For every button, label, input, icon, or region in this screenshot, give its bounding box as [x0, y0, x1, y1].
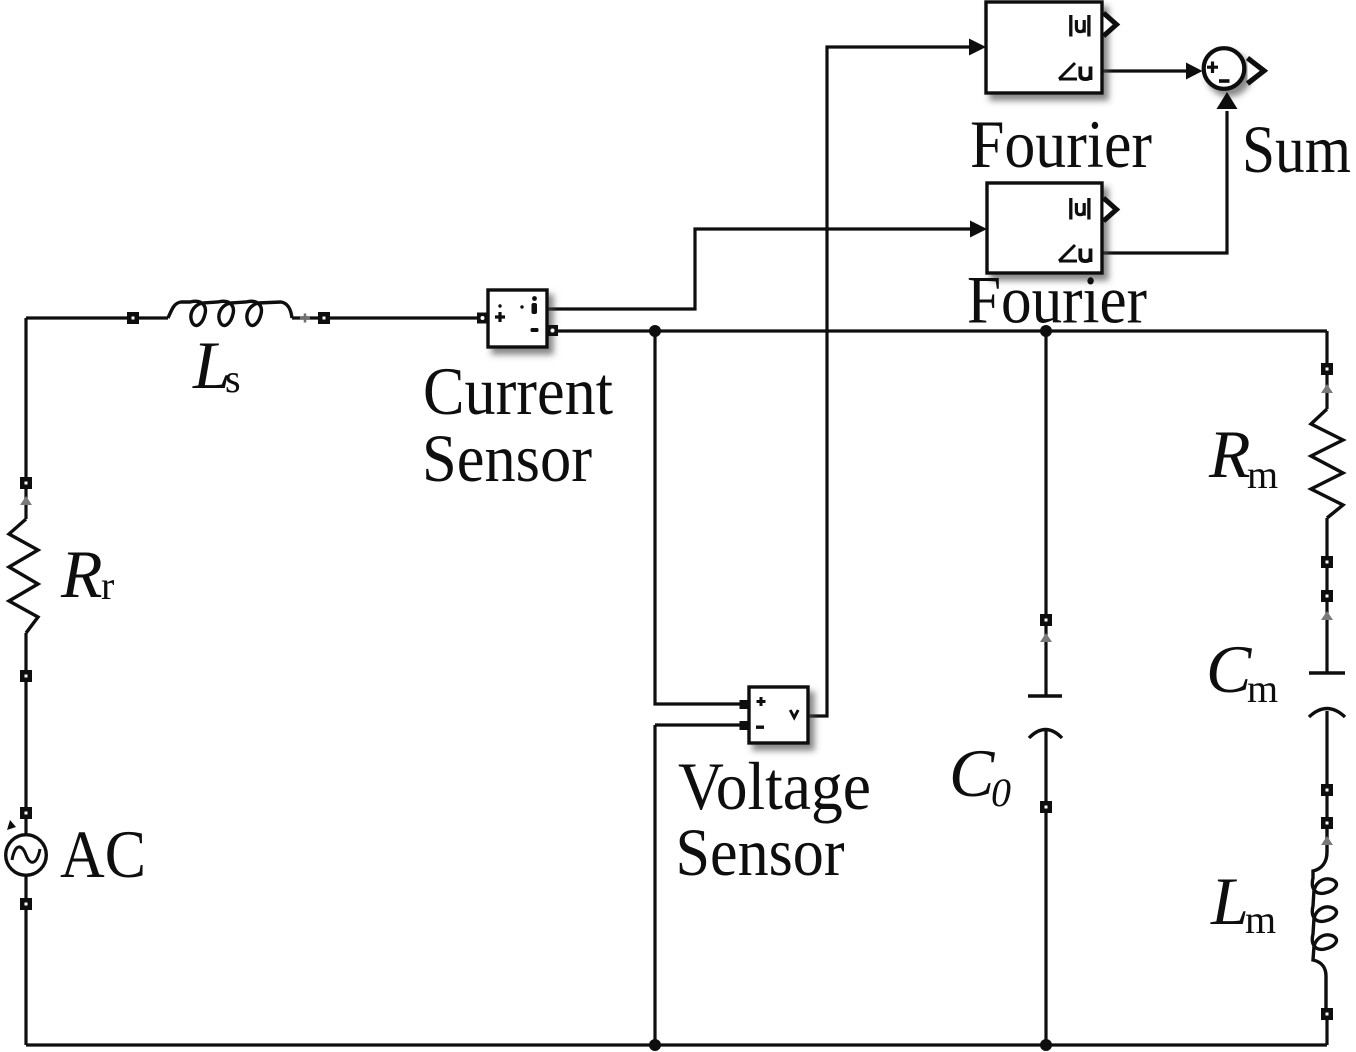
Fourier2 angle-u label [1059, 245, 1091, 262]
wire voltage sensor output [808, 47, 970, 716]
port AC top [20, 807, 32, 819]
resistor Rr [9, 519, 38, 633]
svg-text:m: m [1247, 452, 1278, 497]
inductor Lm [1312, 829, 1336, 1008]
svg-text:Sum: Sum [1242, 111, 1351, 187]
wire middle vertical to voltage sensor minus and bottom [655, 725, 740, 1045]
svg-text:Voltage: Voltage [678, 748, 871, 824]
current sensor i glyph [532, 296, 538, 314]
current sensor U1 [488, 290, 547, 347]
svg-text:R: R [1208, 416, 1251, 492]
Fourier2 |u| label [1071, 198, 1089, 220]
sum bottom input arrow [1217, 92, 1238, 109]
svg-text:Fourier: Fourier [967, 262, 1147, 338]
port C0 bottom [1040, 801, 1052, 813]
capacitor Cm [1309, 673, 1345, 717]
sum plus mark [1207, 62, 1218, 74]
current sensor dot2 [520, 305, 523, 308]
svg-text:m: m [1245, 897, 1276, 942]
port Rr bottom [20, 670, 32, 682]
voltage sensor plus mark [757, 697, 766, 706]
direction arrow Cm [1321, 611, 1333, 620]
svg-text:m: m [1247, 666, 1278, 711]
AC sine symbol [12, 847, 40, 862]
Fourier1 angle-u label [1059, 63, 1091, 80]
svg-text:AC: AC [60, 816, 146, 892]
capacitor C0 [1028, 696, 1062, 738]
resistor Rm [1311, 409, 1343, 518]
wire middle vertical to voltage sensor plus [655, 331, 740, 704]
wire bottom rail [26, 1043, 1327, 1046]
port Cm bottom [1321, 784, 1333, 796]
port Cm top [1321, 590, 1333, 602]
sum left input arrow [1186, 63, 1203, 80]
wire current sensor signal output [547, 229, 970, 309]
current sensor plus mark [495, 312, 505, 322]
port voltage sensor minus [740, 721, 749, 730]
port current sensor right [547, 325, 558, 336]
port Rr top [20, 477, 32, 489]
junction node D [1040, 1039, 1052, 1051]
port AC bottom [20, 898, 32, 910]
junction node A [649, 325, 661, 337]
current sensor minus mark [531, 328, 539, 332]
sum block U3 [1204, 48, 1245, 89]
junction node B [1040, 325, 1052, 337]
junction node C [649, 1039, 661, 1051]
svg-text:L: L [1210, 863, 1249, 939]
Fourier2 input arrow [970, 221, 987, 238]
wire right branch [1325, 331, 1328, 1045]
Fourier1 |u| label [1071, 15, 1089, 37]
Fourier block 2 [987, 183, 1102, 273]
voltage sensor minus mark [756, 726, 764, 729]
sum output chevron [1248, 58, 1265, 84]
direction arrow C0 [1040, 633, 1052, 642]
wire left vertical [24, 318, 27, 1045]
direction arrow Lm [1321, 836, 1333, 845]
svg-text:Current: Current [423, 353, 613, 429]
Fourier block 1 [986, 2, 1102, 93]
AC polarity arrow [7, 820, 16, 830]
svg-text:R: R [60, 536, 103, 612]
wire Fourier1 output to Sum [1102, 69, 1186, 72]
Fourier2 output chevron [1104, 198, 1117, 221]
svg-text:0: 0 [991, 770, 1011, 815]
port Rm bottom [1321, 556, 1333, 568]
sum minus mark [1219, 79, 1230, 83]
svg-text:Sensor: Sensor [422, 420, 592, 496]
svg-text:C: C [949, 735, 995, 811]
port Ls right [318, 312, 330, 324]
current sensor dot1 [498, 304, 501, 307]
port voltage sensor plus [740, 700, 749, 709]
direction arrow Rr [20, 496, 32, 505]
Fourier1 input arrow [969, 39, 986, 56]
svg-text:r: r [101, 563, 114, 608]
svg-text:Fourier: Fourier [970, 106, 1152, 182]
AC source circle [6, 835, 47, 876]
wire top-left horizontal [26, 316, 477, 319]
voltage sensor U2 [749, 687, 808, 743]
port Lm top [1321, 817, 1333, 829]
wire C0 branch [1044, 331, 1047, 1045]
Fourier1 output chevron [1104, 13, 1117, 36]
svg-text:s: s [225, 356, 241, 401]
port Lm bottom [1321, 1008, 1333, 1020]
voltage sensor v glyph [790, 710, 798, 718]
wire Fourier2 output to Sum [1102, 111, 1227, 253]
svg-text:C: C [1206, 631, 1252, 707]
direction arrow Rm [1321, 384, 1333, 393]
port current sensor left [477, 313, 488, 324]
inductor Ls [168, 301, 292, 325]
svg-text:Sensor: Sensor [676, 814, 845, 890]
port Rm top [1321, 363, 1333, 375]
wire current sensor minus rail [558, 329, 1327, 332]
polarity mark Ls [300, 314, 310, 323]
port Ls left [127, 312, 139, 324]
port C0 top [1040, 614, 1052, 626]
